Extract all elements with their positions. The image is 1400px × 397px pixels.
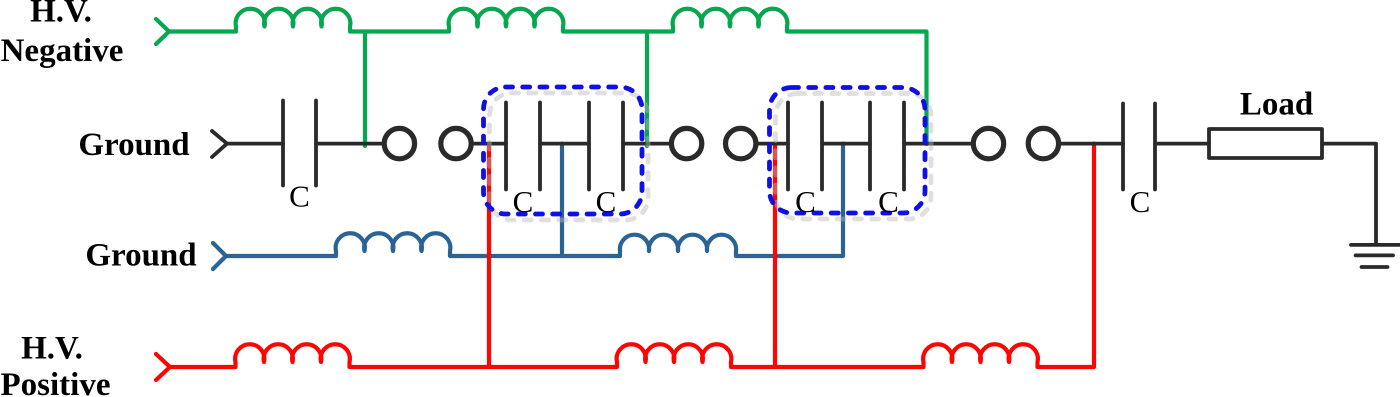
- svg-text:Load: Load: [1240, 87, 1313, 123]
- svg-text:C: C: [596, 184, 617, 219]
- svg-text:Positive: Positive: [1, 367, 111, 397]
- svg-text:H.V.: H.V.: [21, 331, 83, 367]
- svg-text:C: C: [1130, 184, 1151, 219]
- svg-text:C: C: [513, 184, 534, 219]
- svg-text:C: C: [878, 184, 899, 219]
- svg-text:H.V.: H.V.: [30, 0, 92, 30]
- svg-text:Negative: Negative: [1, 33, 124, 69]
- svg-text:C: C: [289, 179, 310, 214]
- svg-text:Ground: Ground: [85, 238, 196, 274]
- svg-text:C: C: [795, 184, 816, 219]
- svg-text:Ground: Ground: [78, 127, 189, 163]
